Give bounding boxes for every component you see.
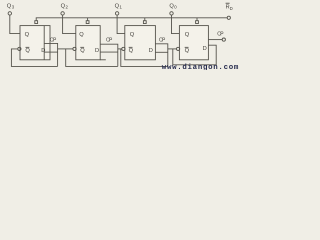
label Q1	[115, 4, 123, 10]
flip-flop FF3 box	[125, 26, 156, 60]
label FF4 D	[203, 46, 207, 52]
pin RD bubble FF4	[196, 21, 199, 24]
svg-text:Q: Q	[80, 48, 85, 54]
wire Q2 stem	[63, 15, 76, 33]
svg-text:CP: CP	[217, 32, 224, 38]
wire FF3 CP stub	[155, 44, 167, 67]
watermark www.diangon.com	[162, 64, 239, 72]
label FF1 Q	[25, 32, 30, 38]
node Q3 terminal	[8, 12, 11, 15]
label FF3 Q	[130, 32, 135, 38]
wire Q3 stem	[10, 15, 20, 33]
svg-text:Q: Q	[25, 32, 30, 38]
pin RD bubble FF1	[35, 21, 38, 24]
wire FF4 reset riser	[196, 18, 198, 21]
label Q3	[7, 4, 15, 10]
node RD input terminal	[227, 16, 230, 19]
label RD	[226, 3, 233, 11]
wire FF2 feedback loop left	[66, 49, 118, 67]
wire FF2 reset riser	[87, 18, 89, 21]
pin Q-bar bubble FF4	[177, 47, 180, 50]
node Q0 terminal	[170, 12, 173, 15]
label Q0	[169, 4, 177, 10]
label FF4 CP	[217, 32, 224, 38]
wire FF1 D input	[44, 51, 57, 53]
wire FF1 CP stub	[44, 43, 57, 66]
wire Q0 stem	[172, 15, 180, 33]
wire FF4 CP input stub	[208, 39, 222, 41]
label FF2 Qbar	[80, 47, 85, 54]
svg-text:CP: CP	[50, 37, 57, 43]
wire FF1 inner vertical	[43, 26, 45, 60]
label FF3 Qbar	[129, 47, 134, 54]
svg-text:Q: Q	[185, 48, 190, 54]
wire FF3 D input	[155, 51, 167, 53]
wire common reset line	[36, 18, 227, 21]
flip-flop FF1 box	[20, 26, 50, 60]
wire FF2 D input	[100, 51, 118, 53]
svg-text:Q: Q	[185, 32, 190, 38]
svg-text:Q: Q	[79, 32, 84, 38]
wire FF3 reset riser	[144, 18, 146, 21]
label FF4 Qbar	[185, 47, 190, 54]
svg-text:D: D	[203, 46, 207, 52]
svg-text:D: D	[149, 48, 153, 54]
node Q1 terminal	[115, 12, 118, 15]
wire FF2 CP stub	[100, 44, 118, 66]
wire FF3 feedback loop bottom	[121, 49, 168, 67]
pin Q-bar bubble FF3	[122, 47, 125, 50]
svg-text:D: D	[41, 48, 45, 54]
label FF1 CP	[50, 37, 57, 43]
node Q2 terminal	[61, 12, 64, 15]
flip-flop FF2 box	[76, 26, 100, 60]
svg-text:Q: Q	[25, 48, 30, 54]
label FF2 Q	[79, 32, 84, 38]
label Q2	[61, 4, 69, 10]
svg-text:www.diangon.com: www.diangon.com	[162, 64, 239, 70]
svg-text:Q: Q	[130, 32, 135, 38]
label FF2 CP	[106, 38, 113, 44]
pin Q-bar bubble FF2	[73, 47, 76, 50]
svg-text:CP: CP	[106, 38, 113, 44]
wire FF1 feedback loop Qbar to D	[11, 49, 57, 67]
svg-text:CP: CP	[159, 38, 166, 44]
wire FF2 bottom edge overshoot	[100, 59, 106, 61]
pin RD bubble FF2	[86, 21, 89, 24]
label FF4 Q	[185, 32, 190, 38]
svg-text:D: D	[95, 48, 99, 54]
svg-text:Q: Q	[129, 48, 134, 54]
label FF2 D	[95, 48, 99, 54]
pin FF4 CP input bubble	[222, 38, 225, 41]
label FF3 D	[149, 48, 153, 54]
wire FF3 CP to FF4 Qbar	[168, 48, 177, 50]
pin Q-bar bubble FF1	[18, 47, 21, 50]
wire FF1 CP to FF2 Qbar	[58, 48, 73, 50]
wire FF4 feedback loop bottom	[173, 45, 216, 65]
label FF3 CP	[159, 38, 166, 44]
wire FF2 CP to FF3 Qbar	[118, 48, 122, 50]
svg-text:D: D	[230, 6, 233, 11]
label FF1 D	[41, 48, 45, 54]
label FF1 Qbar	[25, 47, 30, 54]
pin RD bubble FF3	[143, 21, 146, 24]
wire Q1 stem	[117, 15, 125, 33]
flip-flop FF4 box	[179, 26, 208, 60]
